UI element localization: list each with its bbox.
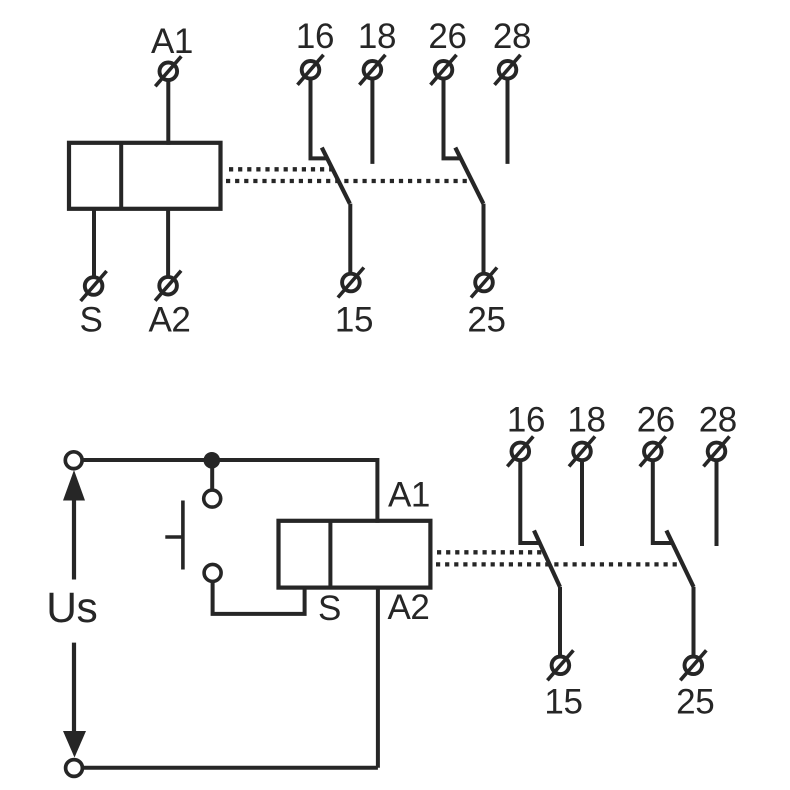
svg-text:A1: A1 [388,475,430,514]
svg-text:18: 18 [358,17,396,56]
svg-text:26: 26 [428,17,466,56]
mechanical linkage dotted line upper (top) [229,167,336,171]
svg-text:25: 25 [467,301,505,340]
relay coil box K1 (bottom) [279,521,431,588]
junction dot [204,452,221,469]
wire A1 to coil box [166,81,170,145]
terminal A1 (top coil) [155,56,181,86]
mechanical linkage dotted line upper (bottom) [437,550,546,554]
wire 16 with fixed contact stub (bottom) [520,461,540,543]
terminal 28 (top) [495,55,521,85]
svg-text:26: 26 [637,401,675,440]
terminal 15 (top) [338,268,364,298]
coil box divider (bottom) [328,521,332,588]
svg-text:15: 15 [544,682,582,721]
svg-text:Us: Us [46,585,97,632]
svg-text:18: 18 [567,401,605,440]
svg-text:S: S [318,589,341,628]
switch arm contact 25-26 (top) [455,148,483,204]
terminal 25 (top) [471,268,497,298]
wire 28 [506,79,510,164]
wire pole 15 (bottom) [558,587,562,656]
wire 28 (bottom) [715,461,719,546]
svg-text:25: 25 [676,682,714,721]
terminal 16 (top) [298,55,324,85]
wire supply top rail to A1 [83,460,378,523]
terminal 18 (top) [359,55,385,85]
supply node circle top-left [65,452,82,469]
mechanical linkage dotted line lower (bottom) [436,562,682,566]
terminal 16 (bottom) [507,436,533,466]
wire 18 (bottom) [580,461,584,546]
wire pole 15 (top) [348,204,352,274]
terminal 28 (bottom) [704,436,730,466]
switch arm contact 15-16 (top) [322,148,350,204]
svg-text:A2: A2 [148,301,190,340]
terminal 18 (bottom) [569,436,595,466]
switch arm contact 25-26 (bottom) [666,531,693,588]
wire pole 25 (top) [482,204,486,274]
mechanical linkage dotted line lower (top) [226,179,471,183]
wire junction to push-button [210,460,214,490]
push-button moving bar [181,501,185,570]
svg-text:A1: A1 [151,22,193,61]
terminal A2 (top coil) [155,271,181,301]
wire S from coil box [92,209,96,277]
wire pole 25 (bottom) [692,587,696,656]
terminal 26 (top) [431,55,457,85]
wire A2 down (bottom coil) [376,588,380,768]
svg-text:16: 16 [507,401,545,440]
wire supply bottom rail [83,766,378,770]
arrow up (Us) [63,470,85,501]
svg-text:16: 16 [296,17,334,56]
switch arm contact 15-16 (bottom) [534,531,560,588]
wire 18 [370,79,374,164]
supply node circle bottom-left [66,760,83,777]
wire push-button to S pin [213,582,305,614]
terminal 15 (bottom) [547,650,573,680]
svg-text:A2: A2 [387,588,429,627]
terminal 26 (bottom) [640,436,666,466]
coil box divider [119,143,123,209]
svg-text:28: 28 [699,401,737,440]
arrow line lower (Us) [72,643,76,731]
svg-text:S: S [80,301,103,340]
push-button contact circle upper [204,490,221,507]
wire A2 from coil box [166,209,170,277]
push-button actuator handle [165,535,183,539]
wire 26 with fixed contact stub (bottom) [653,461,672,543]
arrow down (Us) [63,731,86,758]
push-button contact circle lower [204,564,221,581]
svg-text:28: 28 [493,17,531,56]
terminal 25 (bottom) [680,650,706,680]
wire 16 with fixed contact stub [311,79,328,158]
svg-text:15: 15 [335,301,373,340]
terminal S (top coil) [81,271,107,301]
arrow line upper (Us) [72,499,76,580]
wire 26 with fixed contact stub [444,79,461,158]
relay coil box K1 [69,143,221,209]
